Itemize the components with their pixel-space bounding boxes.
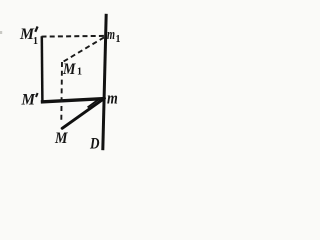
svg-text:1: 1 xyxy=(116,34,121,45)
svg-text:M: M xyxy=(54,130,68,147)
svg-text:D: D xyxy=(89,135,100,152)
svg-text:M: M xyxy=(21,92,36,109)
svg-text:1: 1 xyxy=(33,36,38,47)
svg-text:M: M xyxy=(62,61,76,78)
svg-text:1: 1 xyxy=(77,67,82,78)
svg-text:m: m xyxy=(107,27,115,43)
svg-text:m: m xyxy=(107,89,118,108)
